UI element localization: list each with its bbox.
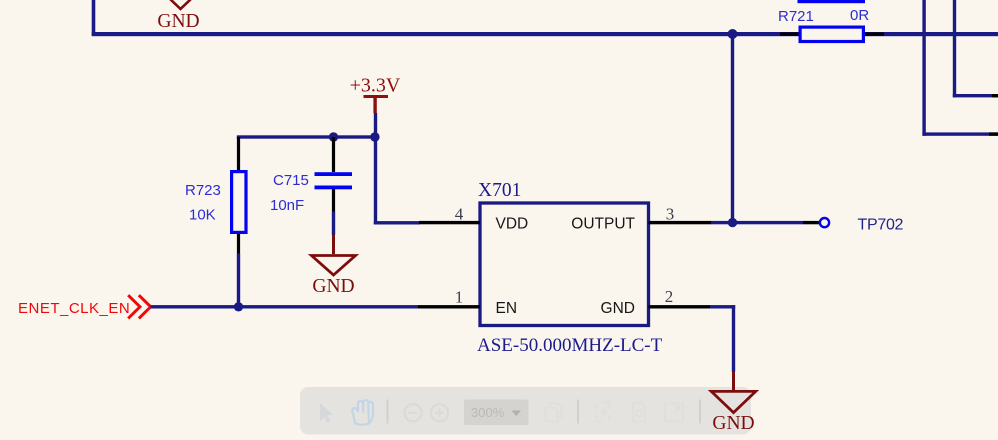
wire main horizontal rail across the top	[92, 32, 998, 36]
svg-text:GND: GND	[712, 413, 754, 434]
resistor R721 right pin lead	[865, 32, 885, 35]
toolbar separator	[387, 400, 389, 424]
svg-text:EN: EN	[496, 300, 518, 317]
wire right vertical 1	[922, 0, 925, 136]
junction at +3.3V drop	[370, 132, 379, 141]
power port +3.3V bar	[364, 95, 389, 98]
svg-text:GND: GND	[312, 276, 354, 297]
viewer toolbar panel	[300, 387, 751, 435]
svg-text:1: 1	[455, 288, 464, 307]
svg-text:+3.3V: +3.3V	[350, 75, 401, 97]
wire right horizontal from vertical 1 to sheet edge	[922, 132, 998, 135]
wire from pin 2 toward ground	[710, 305, 735, 308]
wire from +3.3V stem down to rail	[374, 113, 377, 137]
wire vertical feed to VDD	[374, 137, 377, 224]
toolbar zoom-in icon	[431, 404, 448, 421]
port chevron 2	[140, 296, 151, 317]
toolbar separator	[699, 400, 701, 424]
wire vertical down to ground	[732, 305, 735, 372]
junction on top rail at x=732	[728, 29, 738, 39]
toolbar copy icon	[546, 404, 562, 422]
pin 3 OUTPUT lead	[649, 221, 712, 224]
ground symbol bottom right stem	[732, 372, 735, 392]
toolbar separator	[577, 400, 579, 424]
wire vertical from sheet above at top left	[92, 0, 96, 36]
toolbar zoom level dropdown 300%	[464, 400, 529, 426]
wire from C715 down to ground	[332, 212, 335, 236]
wire horizontal feed to VDD pin	[374, 221, 420, 224]
svg-text:GND: GND	[157, 11, 199, 32]
oscillator X701 body	[480, 203, 649, 326]
toolbar zoom-out icon	[404, 404, 421, 421]
resistor R723 top pin lead	[237, 137, 240, 170]
svg-text:300%: 300%	[471, 405, 505, 420]
wire from pin 3 to test point	[711, 221, 803, 224]
svg-text:OUTPUT: OUTPUT	[571, 216, 635, 233]
pin 4 VDD lead	[419, 221, 480, 224]
svg-text:TP702: TP702	[858, 217, 904, 234]
pin 2 GND lead	[649, 305, 711, 308]
resistor body above R721 clipped at top edge	[798, 0, 866, 3]
svg-text:ASE-50.000MHZ-LC-T: ASE-50.000MHZ-LC-T	[477, 335, 663, 356]
wire right vertical 2	[953, 0, 956, 97]
svg-text:10nF: 10nF	[270, 197, 304, 214]
svg-text:X701: X701	[478, 180, 521, 201]
pin lead black at right edge upper	[992, 94, 998, 97]
ground symbol top (partially visible triangle tip)	[159, 0, 203, 9]
capacitor C715 top plate	[315, 172, 353, 176]
junction on OUTPUT net	[728, 218, 737, 227]
toolbar document icon	[633, 403, 645, 422]
svg-text:3: 3	[666, 205, 675, 224]
svg-text:VDD: VDD	[496, 216, 529, 233]
svg-text:2: 2	[665, 287, 674, 306]
resistor R723 body	[232, 172, 246, 233]
test point TP702 pad circle	[820, 218, 829, 227]
junction at C715 top	[329, 132, 338, 141]
capacitor C715 bottom plate	[315, 186, 353, 190]
toolbar pan hand tool icon	[352, 400, 373, 425]
svg-text:C715: C715	[273, 172, 309, 189]
toolbar cursor tool icon	[320, 403, 333, 423]
resistor R721 body	[800, 27, 863, 41]
wire horizontal power rail y=137	[237, 135, 377, 138]
resistor R721 left pin lead	[780, 32, 799, 35]
wire right horizontal from vertical 2 to sheet edge	[953, 94, 998, 97]
wire EN net horizontal	[151, 305, 419, 308]
toolbar snippet icon	[596, 403, 610, 422]
toolbar expand icon	[665, 404, 683, 422]
svg-text:4: 4	[455, 205, 464, 224]
ground symbol below C715 stem	[332, 235, 335, 255]
pin lead black at right edge lower	[989, 132, 998, 135]
svg-text:GND: GND	[601, 300, 635, 317]
resistor R723 bottom pin lead	[237, 234, 240, 254]
port chevron 1	[129, 296, 140, 317]
svg-text:10K: 10K	[189, 207, 216, 224]
junction at R723 bottom on EN net	[234, 302, 243, 311]
svg-text:R721: R721	[778, 8, 814, 25]
wire vertical from top rail down to OUTPUT net	[731, 34, 734, 224]
wire from R723 down to EN net	[237, 254, 240, 309]
capacitor C715 top pin lead	[332, 137, 335, 172]
test point lead	[803, 221, 819, 224]
power port +3.3V stem	[373, 96, 376, 113]
svg-text:ENET_CLK_EN: ENET_CLK_EN	[18, 300, 130, 317]
svg-text:R723: R723	[185, 182, 221, 199]
capacitor C715 bottom pin lead	[332, 189, 335, 212]
ground symbol bottom right triangle	[711, 391, 755, 412]
pin 1 EN lead	[418, 305, 480, 308]
svg-text:0R: 0R	[850, 7, 869, 24]
ground symbol below C715 triangle	[312, 256, 356, 276]
